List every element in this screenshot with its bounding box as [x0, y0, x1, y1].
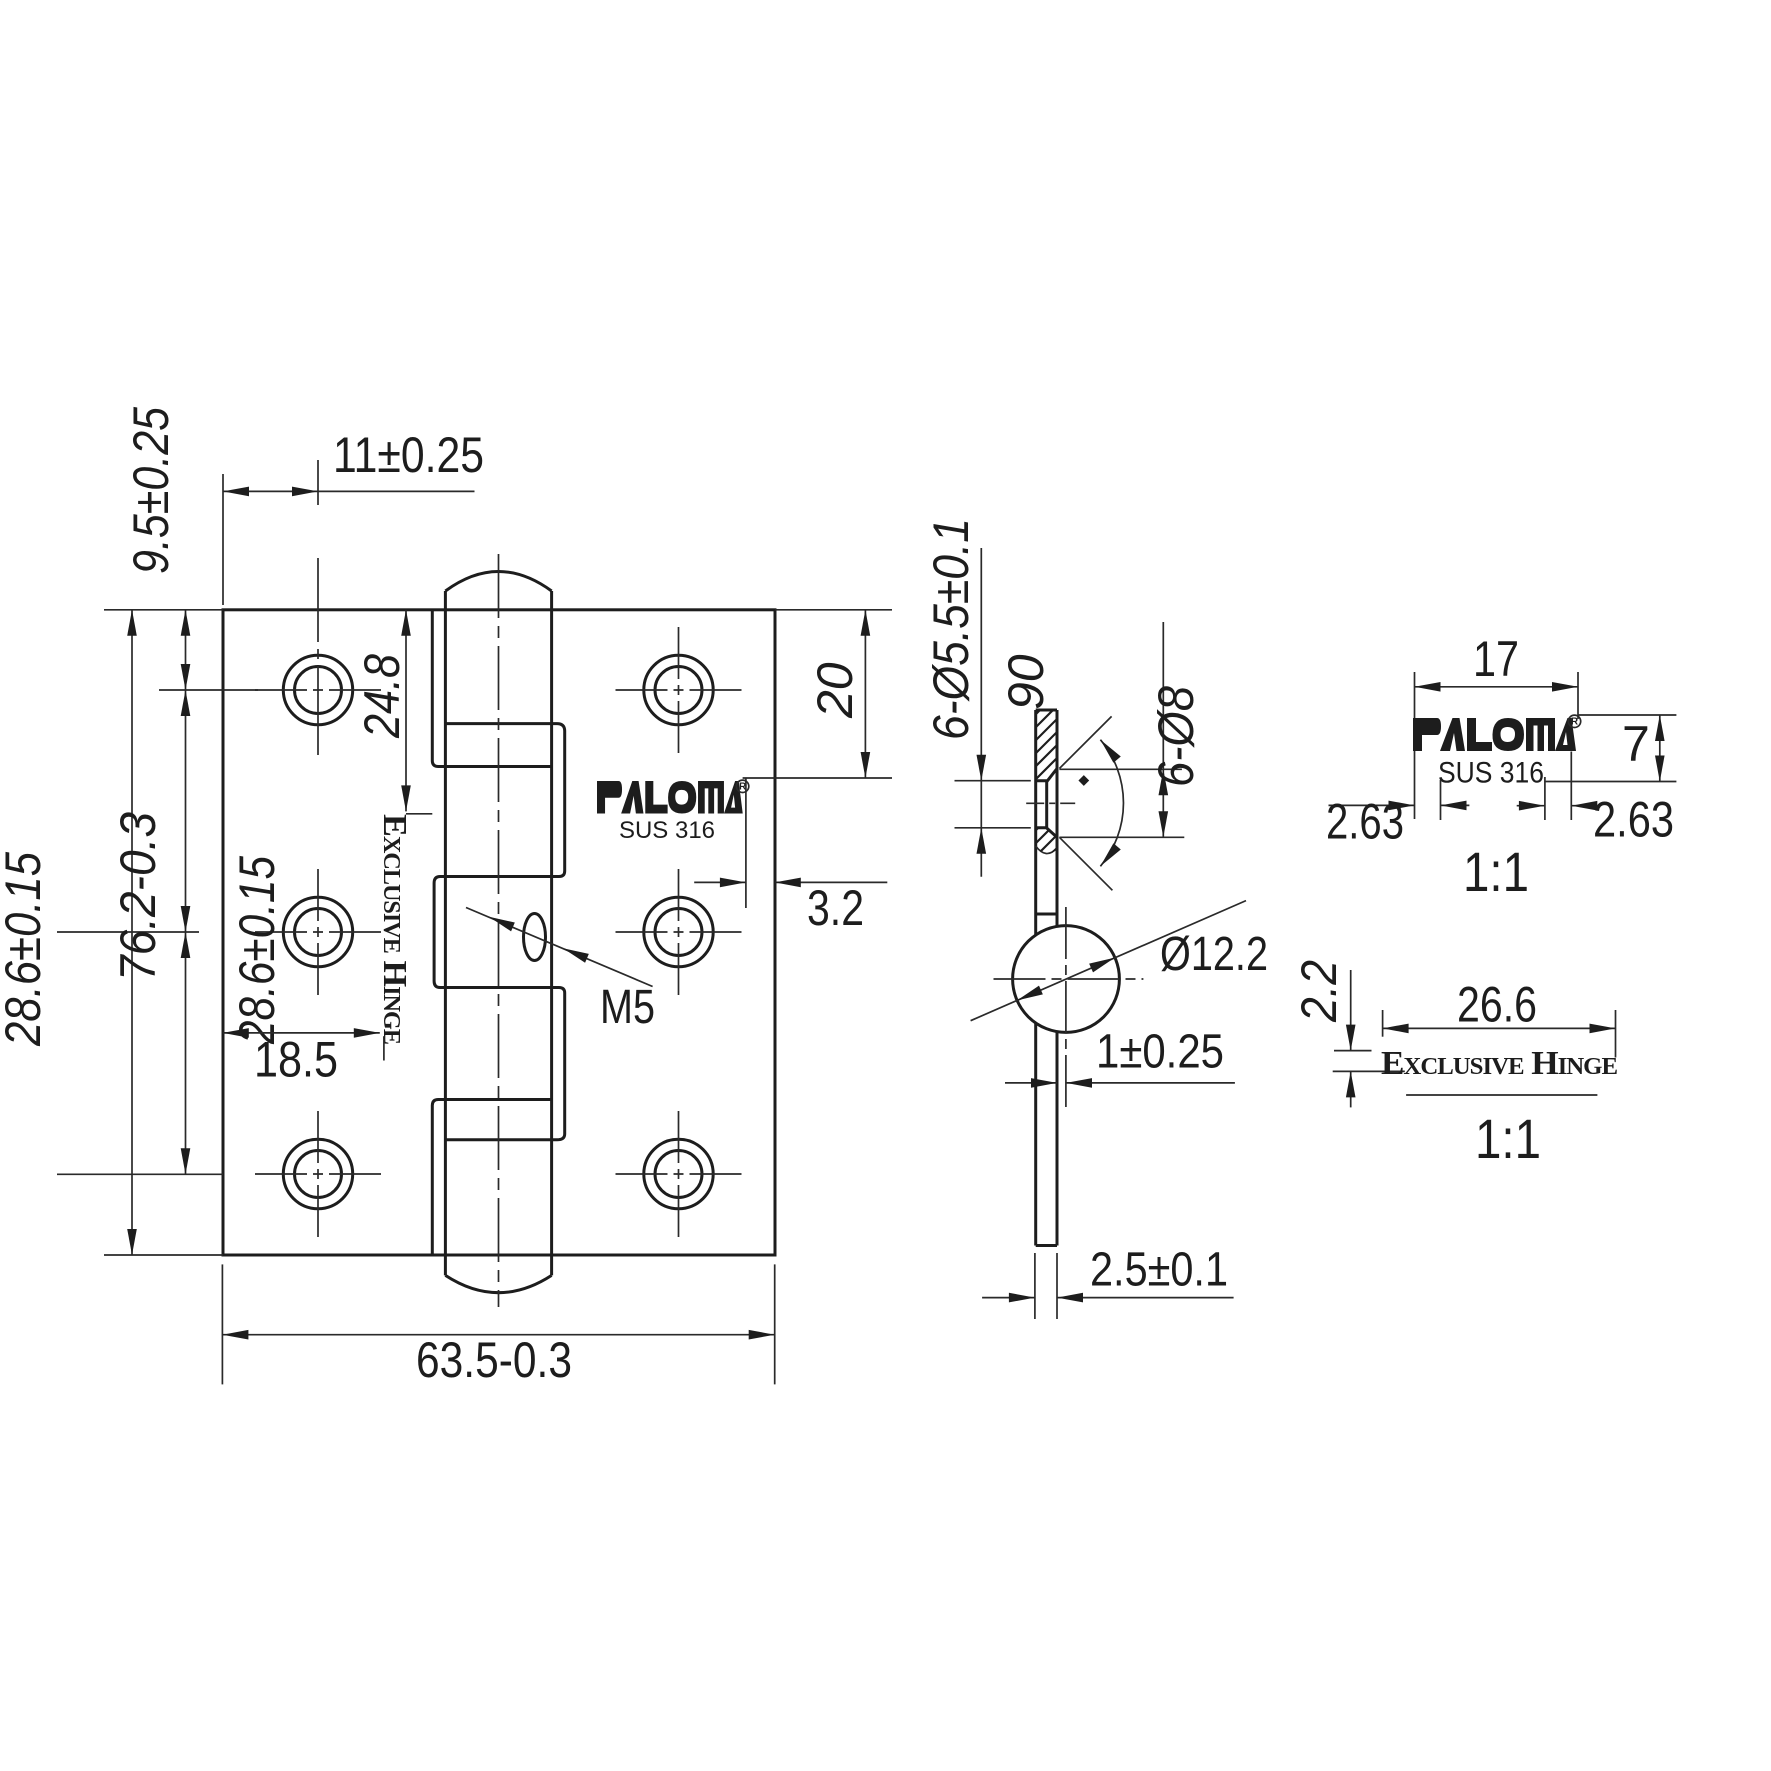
strip bottom edge — [1036, 1244, 1057, 1247]
screw hole A1 — [255, 558, 381, 755]
left leaf lower cut edge — [432, 1100, 551, 1256]
knuckle top cap arc — [445, 572, 551, 592]
knuckle circle — [1013, 926, 1120, 1033]
svg-text:63.5-0.3: 63.5-0.3 — [416, 1332, 572, 1388]
svg-text:2.5±0.1: 2.5±0.1 — [1090, 1243, 1228, 1296]
logo top extension line — [743, 777, 892, 779]
dimension 18.5 — [223, 1028, 384, 1088]
svg-text:Exclusive Hinge: Exclusive Hinge — [376, 814, 413, 1044]
dimension 17 — [1415, 631, 1579, 819]
countersunk hole upper boundary — [1036, 769, 1057, 781]
countersunk hole lower boundary — [1036, 828, 1057, 838]
stacked dimension line 9.5 / 28.6 / 28.6 — [181, 610, 191, 1175]
leaf strip left edge — [1034, 710, 1037, 935]
svg-text:Exclusive Hinge: Exclusive Hinge — [1381, 1045, 1617, 1082]
svg-text:28.6±0.15: 28.6±0.15 — [0, 852, 51, 1047]
svg-text:26.6: 26.6 — [1457, 977, 1537, 1033]
dimension 6-Ø8 — [1059, 622, 1204, 837]
svg-text:20: 20 — [807, 662, 863, 719]
section hatching bottom — [854, 660, 1440, 960]
svg-text:28.6±0.15: 28.6±0.15 — [229, 856, 285, 1045]
break line arc — [1036, 846, 1057, 854]
screw hole A2 — [255, 869, 381, 995]
dimension 2.5±0.1 — [982, 1243, 1234, 1319]
svg-text:SUS 316: SUS 316 — [1438, 757, 1544, 790]
dimension 7 — [1544, 715, 1676, 782]
screw hole B1 — [616, 627, 742, 753]
svg-text:2.63: 2.63 — [1593, 791, 1674, 847]
angle vertex diamond — [1078, 775, 1089, 786]
dimension 63.5-0.3 — [222, 1264, 774, 1388]
dimension 1±0.25 — [1005, 1026, 1235, 1088]
dimension 20 — [807, 610, 870, 778]
logo right extension line — [745, 778, 747, 908]
dimension 76.2-0.3 — [104, 610, 223, 1255]
dimension 3.2 — [694, 878, 887, 936]
svg-text:6-Ø5.5±0.1: 6-Ø5.5±0.1 — [923, 518, 979, 740]
dimension 2.63 right — [1517, 752, 1674, 848]
svg-text:9.5±0.25: 9.5±0.25 — [123, 407, 179, 574]
svg-text:2.63: 2.63 — [1326, 793, 1404, 849]
svg-text:18.5: 18.5 — [254, 1032, 338, 1088]
extension line hole row 1 — [159, 689, 258, 691]
left leaf upper cut edge — [432, 610, 551, 767]
countersink cone line lower — [1059, 837, 1112, 890]
M5 thread oval — [524, 914, 546, 961]
90 degree angle arc — [1097, 737, 1124, 870]
top edge right extension line — [775, 609, 892, 611]
strip joint line — [1036, 913, 1057, 916]
leaf strip right edge — [1056, 710, 1059, 926]
svg-text:Ø12.2: Ø12.2 — [1160, 928, 1268, 981]
hinge leaf plate outline — [223, 610, 775, 1255]
PALOMA logo front view — [597, 781, 743, 814]
countersink cone line upper — [1059, 716, 1111, 768]
dimension 11±0.25 — [223, 427, 484, 605]
dimension 6-Ø5.5±0.1 — [923, 518, 1031, 877]
dimension 24.8 — [354, 610, 432, 814]
underline — [1406, 1094, 1597, 1096]
svg-text:11±0.25: 11±0.25 — [333, 427, 484, 483]
svg-text:76.2-0.3: 76.2-0.3 — [110, 812, 166, 981]
dimension 2.2 — [1291, 960, 1405, 1108]
dimension 26.6 — [1383, 977, 1616, 1058]
section hatching top — [850, 600, 1436, 900]
svg-text:1:1: 1:1 — [1463, 840, 1529, 903]
dimension Ø12.2 leader — [971, 901, 1268, 1021]
svg-text:17: 17 — [1473, 631, 1519, 687]
screw hole A3 — [255, 1111, 381, 1237]
svg-text:90: 90 — [998, 654, 1054, 710]
svg-text:SUS 316: SUS 316 — [619, 817, 715, 844]
svg-text:1±0.25: 1±0.25 — [1096, 1026, 1224, 1079]
extension line hole row 2 — [57, 931, 199, 933]
knuckle left edge — [444, 591, 447, 1275]
svg-text:24.8: 24.8 — [354, 654, 410, 739]
svg-text:6-Ø8: 6-Ø8 — [1148, 686, 1204, 787]
dimension 2.63 left — [1326, 780, 1469, 849]
svg-text:2.2: 2.2 — [1291, 960, 1347, 1023]
screw hole B2 — [616, 869, 742, 995]
svg-text:1:1: 1:1 — [1475, 1107, 1541, 1170]
svg-text:M5: M5 — [600, 981, 655, 1034]
extension line hole row 3 — [57, 1173, 223, 1175]
svg-text:3.2: 3.2 — [807, 880, 864, 936]
M5 leader line — [466, 908, 653, 987]
pin centerline — [498, 554, 500, 1307]
strip top edge — [1036, 709, 1057, 712]
knuckle circle centerline horizontal — [994, 978, 1144, 980]
right leaf upper cut edge — [434, 724, 565, 1140]
knuckle circle centerline vertical — [1065, 907, 1067, 1108]
knuckle right edge — [550, 591, 553, 1275]
hole centerline — [1026, 802, 1075, 804]
screw hole B3 — [616, 1111, 742, 1237]
hole cylinder wall — [1045, 781, 1048, 828]
knuckle bottom cap arc — [445, 1275, 551, 1292]
PALOMA logo detail view — [1413, 718, 1576, 751]
svg-text:7: 7 — [1622, 716, 1650, 772]
